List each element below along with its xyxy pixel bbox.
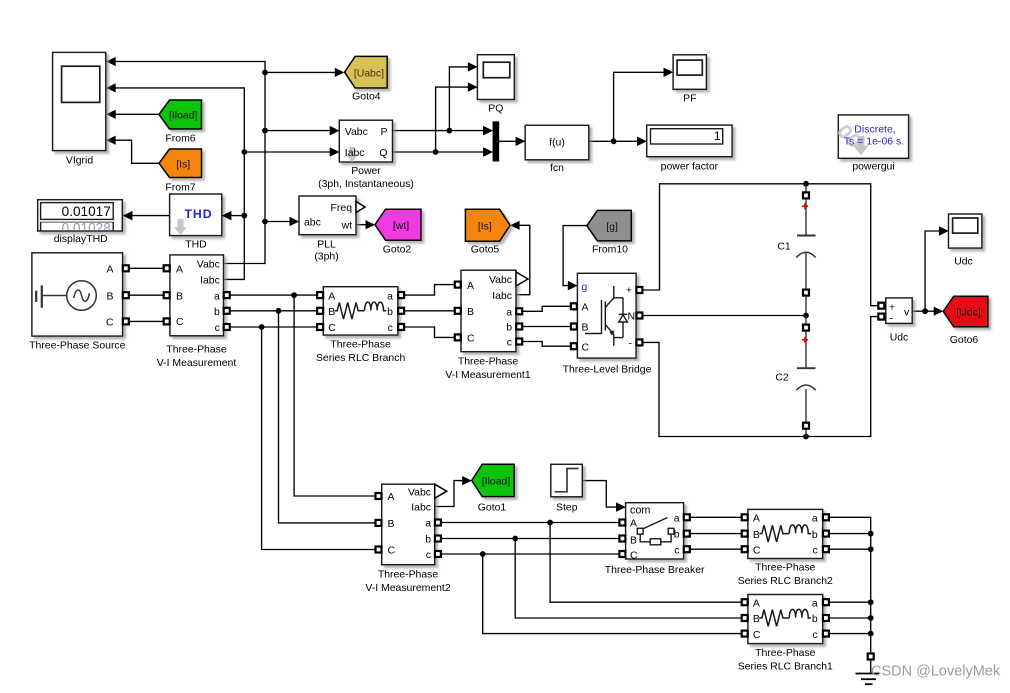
svg-text:a: a [214,291,220,302]
svg-text:b: b [812,614,818,625]
svg-text:a: a [812,598,818,609]
svg-text:A: A [388,492,395,503]
svg-text:[Is]: [Is] [176,159,190,170]
svg-text:Discrete,: Discrete, [854,123,895,135]
svg-text:From7: From7 [165,183,195,194]
svg-text:B: B [176,291,183,302]
svg-text:b: b [387,307,393,318]
svg-text:+: + [889,301,895,313]
svg-text:A: A [582,303,589,314]
svg-text:THD: THD [185,207,213,221]
svg-text:(3ph, Instantaneous): (3ph, Instantaneous) [318,179,414,190]
svg-text:b: b [214,307,220,318]
svg-text:C: C [467,334,475,345]
svg-text:P: P [381,127,388,138]
svg-text:[wt]: [wt] [393,221,409,232]
svg-text:fcn: fcn [550,163,564,174]
svg-text:PF: PF [683,93,696,104]
svg-text:THD: THD [185,240,207,251]
svg-text:Iabc: Iabc [200,276,220,287]
svg-text:b: b [425,535,431,546]
svg-text:A: A [176,264,183,275]
svg-text:v: v [904,306,910,318]
svg-text:a: a [812,514,818,525]
svg-text:Goto5: Goto5 [471,244,500,255]
svg-text:A: A [328,291,335,302]
svg-text:A: A [107,264,114,275]
svg-text:Vabc: Vabc [197,260,220,271]
svg-text:Three-Phase Breaker: Three-Phase Breaker [605,565,705,576]
svg-text:[Is]: [Is] [478,222,492,233]
svg-text:B: B [328,307,335,318]
svg-text:Vabc: Vabc [489,275,512,286]
svg-text:C: C [106,318,114,329]
svg-text:wt: wt [341,221,353,232]
svg-text:abc: abc [304,218,321,229]
svg-text:Freq: Freq [331,203,353,214]
svg-text:B: B [753,530,760,541]
svg-text:CSDN @LovelyMek: CSDN @LovelyMek [871,664,1001,680]
svg-text:Three-Level Bridge: Three-Level Bridge [563,364,652,375]
svg-text:[g]: [g] [606,222,618,233]
svg-text:B: B [388,519,395,530]
svg-text:c: c [812,630,817,641]
svg-text:B: B [630,535,637,546]
svg-text:V-I Measurement1: V-I Measurement1 [445,370,530,381]
svg-text:com: com [630,504,650,516]
svg-text:b: b [506,323,512,334]
svg-text:V-I Measurement: V-I Measurement [157,358,237,369]
svg-text:f(u): f(u) [549,138,565,149]
svg-text:A: A [753,514,760,525]
svg-text:C: C [753,545,761,556]
svg-text:Series RLC Branch: Series RLC Branch [316,353,406,364]
svg-text:power factor: power factor [661,162,719,173]
svg-text:Q: Q [379,148,387,159]
svg-text:c: c [674,545,679,556]
svg-text:Iabc: Iabc [492,291,512,302]
svg-text:c: c [812,545,817,556]
svg-text:Three-Phase Source: Three-Phase Source [29,341,126,352]
svg-text:C1: C1 [777,242,791,253]
svg-text:Step: Step [556,502,578,513]
svg-text:V-I Measurement2: V-I Measurement2 [365,583,450,594]
svg-text:N: N [628,312,636,323]
svg-text:C: C [630,550,638,561]
svg-text:C: C [328,323,336,334]
svg-text:Three-Phase: Three-Phase [458,356,519,367]
svg-text:(3ph): (3ph) [314,252,338,263]
svg-text:Series RLC Branch1: Series RLC Branch1 [738,662,833,673]
svg-text:PLL: PLL [317,240,336,251]
svg-text:C2: C2 [775,372,789,383]
svg-text:c: c [388,323,393,334]
svg-text:[Uabc]: [Uabc] [354,68,384,79]
svg-text:Three-Phase: Three-Phase [755,563,816,574]
svg-text:From10: From10 [592,244,628,255]
svg-text:a: a [425,519,431,530]
svg-text:Udc: Udc [954,256,973,267]
svg-text:-: - [629,338,633,349]
svg-text:Goto6: Goto6 [950,335,979,346]
svg-text:B: B [753,614,760,625]
svg-text:C: C [582,342,590,353]
svg-text:Three-Phase: Three-Phase [378,569,439,580]
svg-text:Three-Phase: Three-Phase [166,345,227,356]
svg-text:c: c [507,338,512,349]
svg-text:VIgrid: VIgrid [66,155,93,166]
svg-text:Series RLC Branch2: Series RLC Branch2 [738,576,833,587]
svg-text:Three-Phase: Three-Phase [330,339,391,350]
svg-text:Three-Phase: Three-Phase [755,648,816,659]
svg-text:B: B [107,291,114,302]
svg-text:-: - [890,313,894,325]
svg-text:powergui: powergui [852,162,894,173]
svg-text:Power: Power [351,166,381,177]
svg-text:B: B [467,307,474,318]
svg-text:a: a [674,513,680,524]
svg-text:displayTHD: displayTHD [54,234,108,245]
svg-text:Goto4: Goto4 [352,92,381,103]
svg-text:Ts = 1e-06 s.: Ts = 1e-06 s. [844,135,904,147]
svg-text:a: a [506,308,512,319]
svg-text:A: A [753,598,760,609]
svg-text:c: c [215,323,220,334]
svg-text:Iabc: Iabc [345,148,365,159]
svg-text:Udc: Udc [890,332,909,343]
svg-text:Goto1: Goto1 [478,502,507,513]
svg-text:C: C [388,546,396,557]
svg-text:c: c [426,550,431,561]
svg-text:g: g [582,282,588,293]
svg-text:Iabc: Iabc [411,503,431,514]
svg-text:Goto2: Goto2 [383,244,412,255]
svg-text:0.01017: 0.01017 [62,204,111,219]
svg-text:Vabc: Vabc [345,127,368,138]
svg-text:C: C [753,630,761,641]
svg-text:+: + [626,286,632,297]
svg-text:PQ: PQ [488,103,503,114]
svg-text:A: A [630,519,637,530]
svg-text:From6: From6 [165,134,195,145]
svg-text:A: A [467,281,474,292]
svg-text:b: b [812,530,818,541]
svg-text:Vabc: Vabc [408,487,431,498]
svg-text:1: 1 [714,129,721,143]
svg-text:[Iload]: [Iload] [482,477,511,488]
svg-text:B: B [582,323,589,334]
svg-text:[Udc]: [Udc] [956,308,980,319]
svg-text:a: a [387,291,393,302]
svg-text:[Iload]: [Iload] [169,111,198,122]
svg-text:C: C [176,317,184,328]
